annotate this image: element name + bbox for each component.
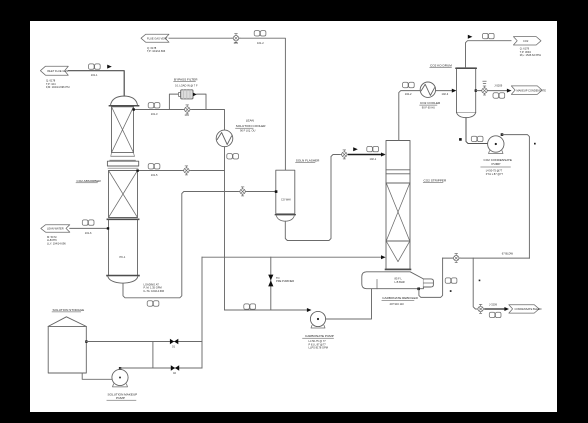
wire flash bottoms riser	[285, 155, 340, 241]
flag CONDENSATE BLEED	[509, 305, 539, 313]
flash drum shell	[276, 170, 295, 214]
flow arrow on CO2 line	[468, 35, 473, 39]
flag FLUE GAS VENT	[141, 34, 169, 42]
absorber upper packed bed	[112, 107, 134, 153]
absorber transition rings	[111, 155, 135, 157]
valve on stripper feed	[340, 150, 348, 159]
wire tank side outlet	[86, 341, 202, 343]
wire lean line down	[224, 147, 226, 310]
carbonate pump P-102	[310, 311, 325, 326]
tag near reboiler outlet	[445, 278, 457, 283]
svg-text:85 F L: 85 F L	[395, 277, 403, 281]
reboiler column joint band	[386, 268, 411, 270]
absorber lower packed bed	[109, 171, 138, 218]
flag WASH WATER	[41, 225, 70, 233]
wire blowdown heavy	[485, 308, 506, 310]
stripper bottom cone	[386, 241, 398, 261]
svg-text:PK-1: PK-1	[120, 255, 126, 259]
wire rich solution line	[123, 192, 276, 298]
tag on CO2 line	[482, 33, 494, 38]
wire makeup pump discharge	[119, 368, 121, 369]
wire crossover	[152, 342, 154, 369]
absorber top tangent band	[109, 105, 138, 107]
valve bowtie on pump line	[171, 365, 179, 370]
svg-text:102-3: 102-3	[442, 92, 449, 96]
absorber bottom tangent band	[107, 275, 139, 277]
wire absorber overhead line	[134, 110, 225, 131]
svg-text:LLY: 104/14.696: LLY: 104/14.696	[47, 241, 66, 245]
flow arrow into carbonate pump	[307, 308, 312, 312]
node drum side nozzle	[475, 89, 477, 91]
node tiny	[534, 143, 536, 145]
condensate pump P-104	[488, 136, 504, 152]
wire cooler to KO drum	[436, 90, 454, 92]
svg-text:101: 101	[185, 113, 190, 117]
flow arrow above stripper feed	[353, 147, 358, 151]
svg-text:CO2 KO DRUM: CO2 KO DRUM	[430, 63, 452, 67]
node square left	[459, 138, 462, 141]
tag on overhead	[403, 82, 415, 87]
svg-text:L.B BHR: L.B BHR	[395, 280, 405, 284]
svg-text:CO2 STRIPPER: CO2 STRIPPER	[424, 178, 447, 182]
stripper top band	[386, 169, 410, 171]
wire condensate return header	[443, 257, 530, 259]
svg-text:IL-TA: 104/14.696: IL-TA: 104/14.696	[144, 289, 165, 293]
tag on stripper feed	[367, 146, 379, 151]
node reboiler outlet	[417, 288, 420, 291]
valve on flash feed	[238, 187, 246, 196]
tag on vent line	[254, 31, 266, 36]
CO2 cooler E-104	[420, 82, 435, 97]
svg-text:MAKEUP CONDENSATE: MAKEUP CONDENSATE	[517, 88, 547, 92]
flag CO2	[513, 37, 541, 45]
flow arrow into bleed flag	[504, 307, 509, 311]
svg-text:90 F 60 HU: 90 F 60 HU	[422, 106, 435, 110]
svg-text:SOLUTION COOLER: SOLUTION COOLER	[236, 124, 267, 128]
tag on mid lean line	[148, 164, 160, 169]
svg-text:PUMP: PUMP	[492, 162, 501, 166]
flag MAKEUP CONDENSATE	[511, 86, 542, 95]
absorber bed support band	[107, 218, 138, 220]
reboiler kettle nozzle	[423, 279, 433, 287]
flow arrow into KO drum	[452, 89, 457, 93]
flash drum bottom dome	[276, 216, 294, 222]
svg-text:101: 101	[234, 41, 239, 45]
absorber collar band	[107, 161, 138, 166]
wire condensate pump discharge	[502, 135, 529, 259]
solution makeup pump P-101	[112, 369, 128, 385]
tag on drum bottoms	[471, 136, 483, 141]
reboiler shell	[362, 272, 424, 289]
storage tank roof	[48, 317, 86, 327]
node small	[450, 290, 452, 292]
svg-text:CARBONATE REBOILER: CARBONATE REBOILER	[382, 296, 418, 300]
stripper shell	[386, 141, 410, 270]
flow arrow into stripper bottom	[381, 255, 386, 259]
svg-text:CO2 COOLER: CO2 COOLER	[420, 101, 441, 105]
wire branch down to carbonate line	[270, 257, 272, 310]
absorber sump walls	[108, 220, 110, 275]
absorber top dome	[111, 96, 138, 105]
wire carbonate suction line	[225, 309, 309, 311]
svg-text:LEAN WATER: LEAN WATER	[47, 227, 64, 231]
svg-text:PRE PURIFIER: PRE PURIFIER	[276, 279, 294, 283]
relief valve on makeup line	[480, 86, 488, 95]
svg-text:INLET FLUE GAS: INLET FLUE GAS	[47, 69, 68, 73]
flow arrow into makeup flag	[507, 89, 512, 93]
wire inlet gas line	[68, 71, 124, 96]
svg-text:SOLN FLASHER: SOLN FLASHER	[296, 159, 320, 163]
wire makeup condensate line	[476, 90, 509, 92]
svg-text:BYPASS FILTER: BYPASS FILTER	[174, 77, 198, 81]
lean solution cooler E-102	[216, 130, 233, 147]
node pump discharge dot	[501, 133, 504, 136]
node tank outlet	[85, 340, 87, 342]
svg-text:FLUE GAS VENT: FLUE GAS VENT	[147, 37, 168, 41]
wire main feed line	[202, 256, 384, 258]
node flash drum inlet	[275, 190, 278, 193]
wire vent line	[169, 38, 285, 170]
svg-text:J-3209: J-3209	[489, 303, 497, 307]
svg-text:102-1: 102-1	[370, 157, 377, 161]
wire drum bottoms	[466, 118, 488, 144]
wire bypass loop	[169, 94, 178, 109]
tag on overhead line	[148, 103, 160, 108]
flag INLET FLUE GAS	[40, 66, 68, 75]
wire stripper overhead	[399, 91, 420, 141]
KO drum shell	[457, 68, 476, 113]
svg-text:0.1 LOAD IN @ 7 F: 0.1 LOAD IN @ 7 F	[175, 83, 198, 87]
svg-text:407 916 110: 407 916 110	[390, 302, 405, 306]
valve bowtie on tank line	[170, 339, 178, 344]
svg-text:101-3: 101-3	[151, 112, 158, 116]
svg-text:90 F LIQ. OU: 90 F LIQ. OU	[240, 129, 256, 133]
wire carbonate discharge	[326, 289, 372, 319]
svg-text:F,M: 104/14.696 PSI: F,M: 104/14.696 PSI	[46, 85, 70, 89]
svg-text:101-2: 101-2	[257, 41, 264, 45]
valve on return header	[452, 254, 460, 263]
svg-text:T,P: 104/14.696: T,P: 104/14.696	[147, 49, 166, 53]
reboiler weir	[376, 280, 378, 289]
tag under rich line	[147, 301, 159, 306]
svg-text:SOLUTION STORAGE: SOLUTION STORAGE	[53, 308, 85, 312]
bypass filter F-101	[179, 93, 181, 97]
tag under blowdown	[489, 312, 501, 317]
svg-text:101-5: 101-5	[151, 173, 158, 177]
tag under makeup line	[493, 93, 505, 98]
valve on vent line	[232, 34, 240, 43]
node absorber lower nozzle	[107, 227, 109, 229]
valve on mid lean line	[182, 166, 190, 175]
wire CO2 product line	[466, 41, 512, 68]
tag on wash water line	[82, 220, 94, 225]
svg-text:101-6: 101-6	[85, 231, 92, 235]
tag on carbonate suction	[244, 304, 256, 309]
svg-text:LEAN: LEAN	[246, 119, 254, 123]
svg-text:LLPS 8178 GPM: LLPS 8178 GPM	[309, 346, 328, 350]
valve on blowdown	[476, 304, 484, 313]
wire reboiler outlet riser	[419, 258, 443, 297]
svg-text:P 61 L 87 @77: P 61 L 87 @77	[486, 172, 504, 176]
svg-text:CONDENSATE BLEED: CONDENSATE BLEED	[515, 307, 542, 311]
absorber bottom dome	[108, 276, 138, 283]
tag FIC-01	[89, 64, 101, 69]
wire storage riser	[201, 257, 203, 368]
svg-text:102-2: 102-2	[405, 92, 412, 96]
wire tank bottom to makeup pump	[82, 373, 111, 379]
wire stripper feed (heavy)	[349, 154, 384, 156]
svg-text:CO2 ABSORBER: CO2 ABSORBER	[77, 179, 102, 183]
node absorber top nozzle	[133, 108, 135, 110]
svg-text:101-1: 101-1	[91, 73, 98, 77]
svg-text:67 BLDW: 67 BLDW	[502, 251, 514, 255]
svg-text:CO WHI: CO WHI	[281, 198, 291, 202]
svg-text:M,L: 1526 62 PPH: M,L: 1526 62 PPH	[520, 53, 541, 57]
flow arrow into stripper	[381, 153, 386, 157]
stripper packed bed	[386, 182, 410, 184]
flow arrow on inlet line	[107, 65, 112, 69]
svg-text:CO2: CO2	[523, 39, 529, 43]
node pump discharge	[119, 367, 121, 369]
svg-text:CARBONATE PUMP: CARBONATE PUMP	[305, 334, 334, 338]
wire wash water line	[70, 227, 109, 229]
flash drum bottom band	[275, 214, 295, 216]
node absorber mid nozzle	[136, 169, 138, 171]
valve on overhead line	[183, 105, 191, 114]
wire blowdown branch	[473, 258, 477, 309]
svg-text:L4 50-75 @77: L4 50-75 @77	[486, 168, 503, 172]
wire lean to absorber mid	[138, 170, 225, 172]
KO drum bottom dome	[457, 113, 476, 118]
storage tank shell	[48, 326, 86, 373]
tag on lean line	[227, 154, 239, 159]
svg-text:J-5209: J-5209	[494, 84, 502, 88]
KO drum top band	[456, 67, 476, 69]
valve vertical bowtie	[268, 275, 273, 281]
svg-text:PUMP: PUMP	[116, 396, 125, 400]
